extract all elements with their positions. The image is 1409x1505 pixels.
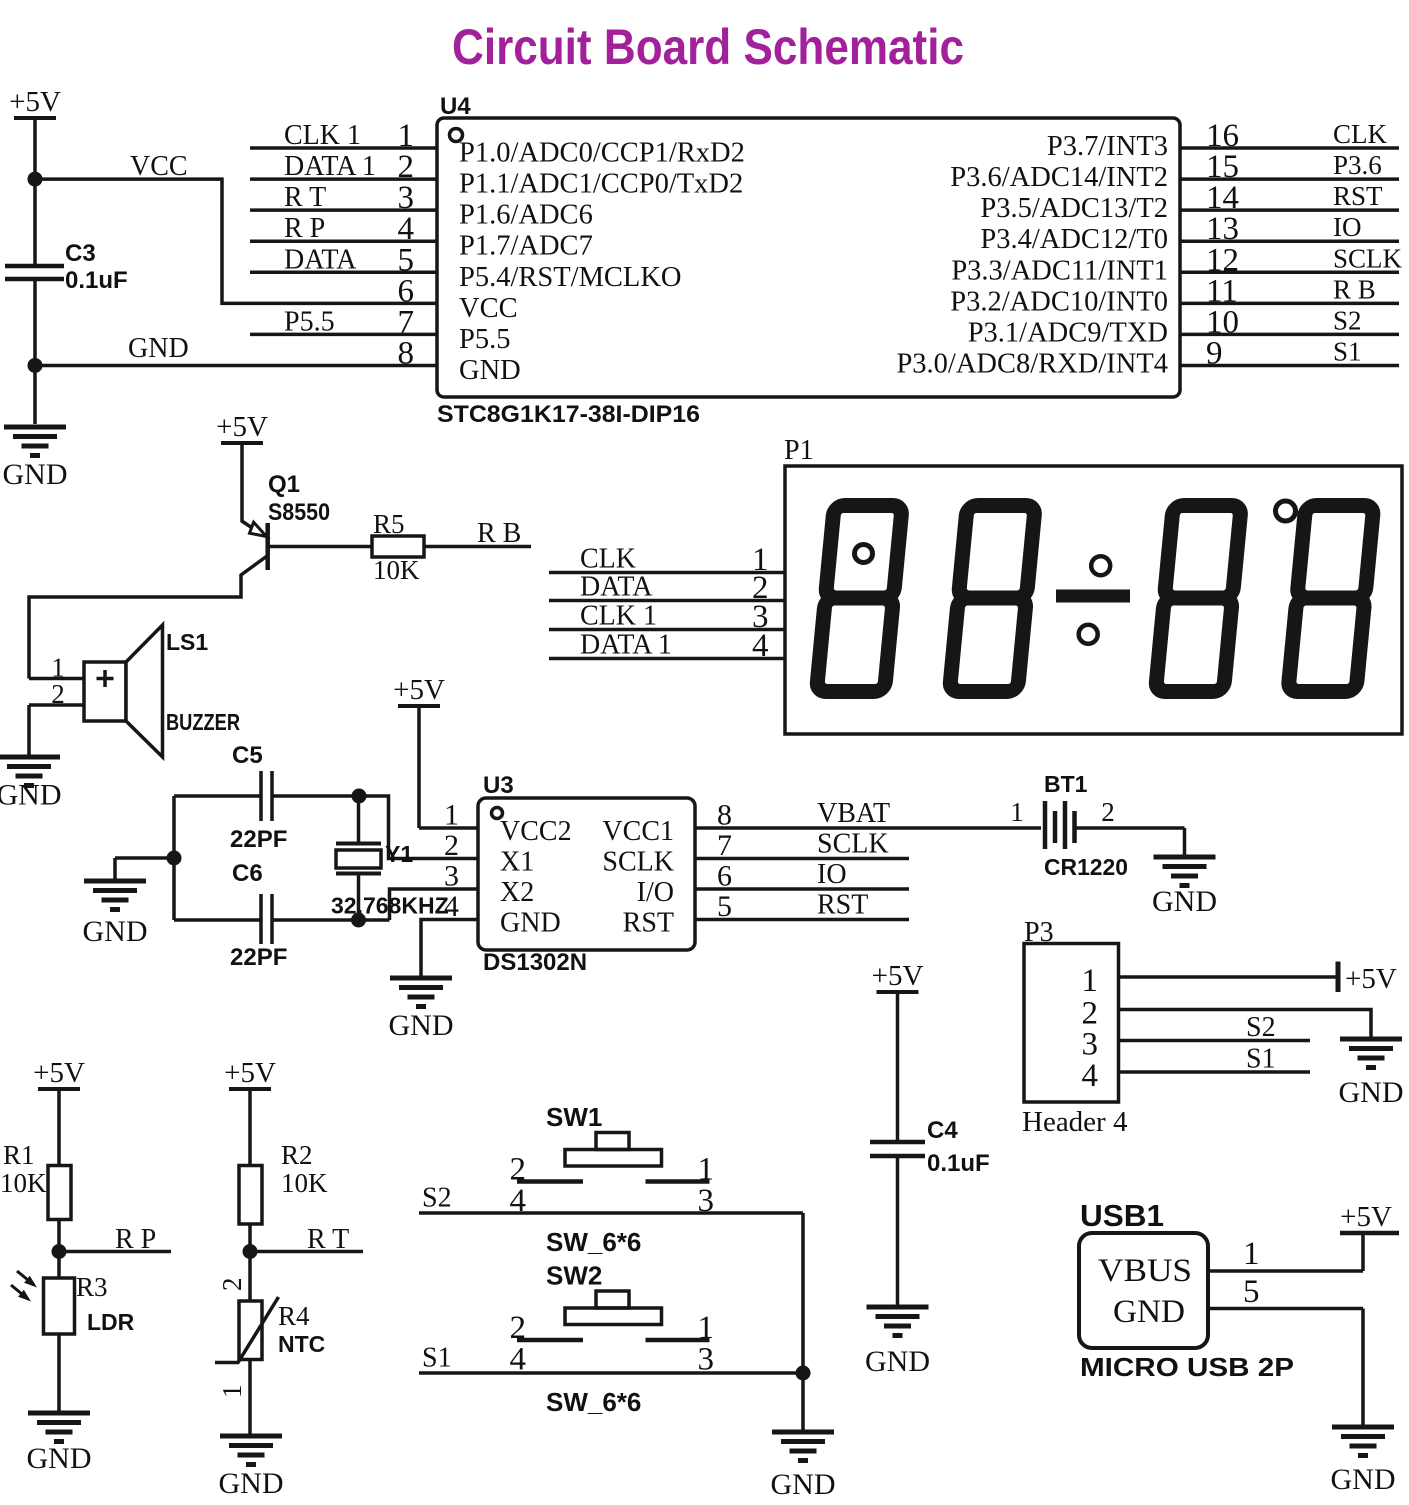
svg-text:P3: P3 [1024, 917, 1054, 948]
svg-text:R4: R4 [278, 1301, 310, 1331]
svg-text:C4: C4 [927, 1117, 958, 1144]
svg-text:C6: C6 [232, 860, 263, 887]
svg-text:VCC: VCC [459, 293, 518, 324]
svg-text:P5.5: P5.5 [459, 324, 510, 355]
svg-text:SW2: SW2 [546, 1261, 602, 1291]
svg-text:P1.0/ADC0/CCP1/RxD2: P1.0/ADC0/CCP1/RxD2 [459, 138, 745, 169]
svg-text:22PF: 22PF [230, 826, 287, 853]
svg-text:GND: GND [3, 458, 68, 491]
svg-text:X1: X1 [500, 847, 534, 878]
svg-text:GND: GND [128, 333, 189, 364]
svg-text:GND: GND [865, 1345, 930, 1378]
svg-text:+5V: +5V [1345, 963, 1397, 995]
svg-text:IO: IO [1333, 212, 1362, 242]
svg-text:DATA 1: DATA 1 [284, 151, 376, 182]
svg-text:S2: S2 [422, 1183, 452, 1214]
svg-text:DS1302N: DS1302N [483, 949, 587, 976]
svg-text:USB1: USB1 [1080, 1198, 1164, 1233]
svg-text:STC8G1K17-38I-DIP16: STC8G1K17-38I-DIP16 [437, 401, 700, 428]
svg-text:CLK 1: CLK 1 [284, 120, 361, 151]
svg-text:RST: RST [623, 908, 674, 939]
svg-text:5: 5 [1243, 1274, 1260, 1310]
svg-text:0.1uF: 0.1uF [65, 267, 128, 294]
svg-text:DATA: DATA [580, 572, 653, 603]
svg-text:P1.7/ADC7: P1.7/ADC7 [459, 231, 593, 262]
svg-text:+5V: +5V [216, 411, 268, 443]
svg-text:NTC: NTC [278, 1331, 325, 1357]
svg-text:0.1uF: 0.1uF [927, 1150, 990, 1177]
svg-text:VCC1: VCC1 [602, 816, 674, 847]
svg-text:GND: GND [500, 908, 561, 939]
svg-text:P3.6: P3.6 [1333, 150, 1382, 180]
svg-text:P1.6/ADC6: P1.6/ADC6 [459, 200, 593, 231]
svg-text:U3: U3 [483, 772, 514, 799]
svg-text:P3.4/ADC12/T0: P3.4/ADC12/T0 [980, 224, 1168, 255]
svg-text:S8550: S8550 [268, 499, 330, 526]
svg-text:R3: R3 [76, 1272, 108, 1302]
svg-text:P1: P1 [784, 435, 814, 466]
svg-text:GND: GND [1339, 1076, 1404, 1109]
svg-text:10K: 10K [373, 555, 420, 585]
svg-text:P3.2/ADC10/INT0: P3.2/ADC10/INT0 [950, 286, 1168, 317]
svg-text:P3.6/ADC14/INT2: P3.6/ADC14/INT2 [950, 162, 1168, 193]
svg-text:MICRO USB 2P: MICRO USB 2P [1080, 1352, 1294, 1382]
svg-text:CR1220: CR1220 [1044, 854, 1128, 880]
svg-text:10K: 10K [281, 1168, 328, 1198]
svg-text:SW_6*6: SW_6*6 [546, 1227, 641, 1257]
svg-text:SW1: SW1 [546, 1102, 602, 1132]
svg-text:+5V: +5V [393, 674, 445, 706]
svg-text:VBAT: VBAT [817, 798, 890, 829]
svg-text:9: 9 [1206, 335, 1223, 371]
svg-text:2: 2 [217, 1278, 247, 1292]
svg-text:SCLK: SCLK [817, 829, 889, 860]
svg-text:C3: C3 [65, 240, 96, 267]
svg-text:CLK: CLK [580, 544, 636, 575]
svg-text:GND: GND [389, 1009, 454, 1042]
svg-text:P5.5: P5.5 [284, 306, 335, 337]
svg-text:+5V: +5V [33, 1057, 85, 1089]
svg-text:10K: 10K [0, 1168, 47, 1198]
svg-text:R B: R B [477, 518, 521, 549]
svg-text:SW_6*6: SW_6*6 [546, 1387, 641, 1417]
svg-text:P3.1/ADC9/TXD: P3.1/ADC9/TXD [968, 317, 1168, 348]
svg-text:1: 1 [217, 1385, 247, 1399]
svg-text:Circuit Board Schematic: Circuit Board Schematic [452, 19, 964, 75]
svg-text:GND: GND [27, 1442, 92, 1475]
svg-text:Header 4: Header 4 [1022, 1106, 1128, 1138]
svg-text:R5: R5 [373, 509, 405, 539]
svg-text:R1: R1 [3, 1140, 35, 1170]
svg-text:I/O: I/O [637, 877, 674, 908]
svg-text:RST: RST [1333, 181, 1383, 211]
svg-text:1: 1 [1010, 797, 1024, 827]
svg-text:GND: GND [219, 1467, 284, 1500]
svg-text:+5V: +5V [1340, 1201, 1392, 1233]
svg-text:P3.3/ADC11/INT1: P3.3/ADC11/INT1 [951, 255, 1168, 286]
svg-text:2: 2 [1101, 797, 1115, 827]
svg-text:LS1: LS1 [166, 629, 208, 655]
svg-text:RST: RST [817, 890, 868, 921]
svg-text:P5.4/RST/MCLKO: P5.4/RST/MCLKO [459, 262, 682, 293]
svg-text:P1.1/ADC1/CCP0/TxD2: P1.1/ADC1/CCP0/TxD2 [459, 169, 743, 200]
svg-text:X2: X2 [500, 877, 534, 908]
svg-text:R2: R2 [281, 1140, 313, 1170]
svg-text:DATA 1: DATA 1 [580, 630, 672, 661]
svg-text:S1: S1 [1246, 1044, 1276, 1075]
svg-text:BT1: BT1 [1044, 771, 1088, 797]
svg-text:GND: GND [459, 355, 521, 386]
svg-text:1: 1 [1243, 1236, 1260, 1272]
svg-text:C5: C5 [232, 742, 263, 769]
svg-text:S1: S1 [422, 1343, 452, 1374]
svg-text:R B: R B [1333, 274, 1376, 304]
svg-text:1: 1 [51, 653, 65, 683]
svg-text:1: 1 [1082, 963, 1099, 999]
svg-text:Y1: Y1 [385, 841, 413, 867]
svg-text:4: 4 [752, 628, 769, 664]
svg-text:BUZZER: BUZZER [166, 709, 240, 735]
svg-text:VCC2: VCC2 [500, 816, 572, 847]
svg-text:R T: R T [284, 182, 326, 213]
svg-text:S2: S2 [1246, 1012, 1276, 1043]
svg-text:SCLK: SCLK [1333, 243, 1403, 273]
svg-text:GND: GND [0, 779, 62, 812]
svg-text:22PF: 22PF [230, 944, 287, 971]
svg-text:P3.7/INT3: P3.7/INT3 [1047, 131, 1168, 162]
svg-text:Q1: Q1 [268, 471, 300, 498]
svg-text:U4: U4 [440, 93, 471, 120]
svg-text:LDR: LDR [87, 1309, 135, 1335]
svg-text:GND: GND [1152, 885, 1217, 918]
svg-text:+5V: +5V [224, 1057, 276, 1089]
svg-text:GND: GND [771, 1468, 836, 1500]
svg-text:SCLK: SCLK [602, 847, 674, 878]
svg-text:S1: S1 [1333, 336, 1362, 366]
svg-text:GND: GND [1113, 1294, 1185, 1330]
svg-text:R T: R T [307, 1224, 349, 1255]
svg-text:S2: S2 [1333, 305, 1362, 335]
svg-text:P3.5/ADC13/T2: P3.5/ADC13/T2 [980, 193, 1168, 224]
svg-text:8: 8 [398, 335, 415, 371]
svg-text:+5V: +5V [872, 960, 924, 992]
svg-text:GND: GND [1331, 1463, 1396, 1496]
svg-text:CLK 1: CLK 1 [580, 601, 657, 632]
svg-text:IO: IO [817, 859, 847, 890]
svg-text:DATA: DATA [284, 244, 357, 275]
svg-text:GND: GND [83, 915, 148, 948]
svg-text:R P: R P [284, 213, 325, 244]
svg-text:32.768KHZ: 32.768KHZ [331, 893, 449, 919]
svg-text:P3.0/ADC8/RXD/INT4: P3.0/ADC8/RXD/INT4 [896, 348, 1168, 379]
svg-text:CLK: CLK [1333, 119, 1388, 149]
svg-text:VCC: VCC [130, 151, 188, 182]
svg-text:R P: R P [115, 1224, 156, 1255]
svg-text:4: 4 [1082, 1058, 1099, 1094]
svg-text:+5V: +5V [9, 86, 61, 118]
svg-text:2: 2 [51, 679, 65, 709]
svg-text:VBUS: VBUS [1098, 1253, 1192, 1289]
